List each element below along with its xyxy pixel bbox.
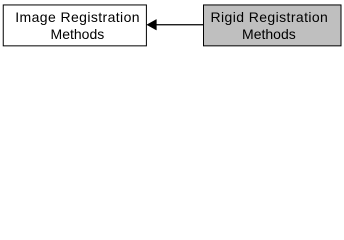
label: Methods (line 2 of left node) bbox=[51, 26, 105, 43]
label: Methods (line 2 of right node) bbox=[242, 26, 296, 43]
node box: Rigid Registration Methods (grey, current node) bbox=[204, 5, 342, 46]
arrowhead pointing left at Image box bbox=[147, 19, 157, 30]
wire: edge shaft from Rigid box to arrowhead bbox=[156, 24, 204, 26]
label: Rigid Registration (line 1 of right node) bbox=[211, 9, 329, 26]
label: Image Registration (line 1 of left node) bbox=[15, 9, 140, 26]
node box: Image Registration Methods (white) bbox=[3, 5, 146, 46]
